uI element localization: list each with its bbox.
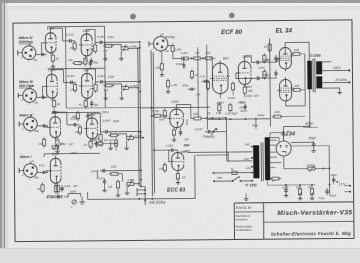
rail riser right: [103, 26, 106, 107]
grid resistor 1M (ch II): [75, 125, 82, 135]
svg-text:400: 400: [248, 89, 253, 93]
grid resistor 1M (ch IV): [70, 41, 77, 51]
svg-text:1M: 1M: [38, 142, 43, 146]
triode VIVb: [79, 31, 93, 58]
svg-text:0,5M: 0,5M: [258, 66, 265, 70]
svg-text:mit Echo: mit Echo: [149, 200, 166, 205]
resistor 1K (ecf cath): [190, 69, 198, 80]
wire splitter-caps: [236, 56, 254, 79]
label 150V: [51, 110, 59, 114]
svg-text:1M: 1M: [159, 167, 164, 171]
svg-text:A1: A1: [78, 102, 83, 106]
resistor 47K (mixer): [159, 108, 167, 121]
wire splitter join: [220, 92, 245, 98]
svg-text:7,5Ω: 7,5Ω: [318, 196, 324, 200]
resistor 1M (ch I grid): [38, 137, 46, 148]
wire pot-bus (ch II): [110, 131, 144, 139]
wire conn-grid (ch III): [43, 86, 48, 97]
svg-text:3,3K: 3,3K: [225, 112, 231, 116]
bus join: [66, 107, 209, 109]
capacitor 0,1 upper: [254, 58, 270, 64]
resistor 50 bias: [308, 185, 314, 196]
ground (pot2 II): [124, 146, 128, 150]
svg-text:ECC 83: ECC 83: [167, 188, 185, 194]
decoupling II: [71, 110, 94, 121]
punch hole left: [130, 13, 136, 19]
title note Nachdruck: [235, 214, 250, 222]
svg-text:200 Ohm: 200 Ohm: [18, 84, 35, 88]
capacitor input (ch II): [40, 124, 48, 127]
resistor 500 bias: [296, 185, 302, 196]
svg-text:00V: 00V: [254, 94, 259, 98]
connector Mikro I: [19, 159, 41, 180]
svg-text:0,5M: 0,5M: [127, 178, 134, 182]
svg-text:400V: 400V: [305, 122, 314, 126]
vertical feed x198: [197, 47, 200, 118]
trimmer 2K (bottom): [71, 200, 77, 209]
ground (pot III): [103, 96, 107, 100]
label 155V (ch II): [101, 110, 109, 114]
svg-text:22M: 22M: [107, 75, 114, 79]
secondary tap 100V: [322, 66, 350, 72]
label 7,5ohm: [318, 196, 324, 200]
label U1808: [310, 54, 321, 58]
capacitor 50u (el34): [262, 70, 277, 77]
mixing bus B: [151, 50, 152, 196]
label Mikro IV: [18, 36, 34, 44]
triode VIIb: [84, 115, 98, 141]
svg-text:22M: 22M: [112, 119, 119, 123]
book edge gray strip: [2, 3, 5, 263]
decoupling resistor 1M rail: [68, 58, 88, 64]
svg-text:10μ: 10μ: [34, 129, 39, 133]
svg-text:Ü-1808: Ü-1808: [310, 54, 321, 58]
mains line L: [212, 172, 252, 174]
volume pot 0,5M (ch II): [127, 134, 143, 141]
capacitor 0,022 (mixer2): [166, 143, 190, 152]
capacitor 0,047 praesenz: [195, 127, 213, 133]
resistor 2K (ch II cathode): [56, 138, 65, 149]
label Netz: [217, 175, 223, 179]
title note Aenderungen: [234, 224, 252, 232]
page left shading: [5, 3, 9, 263]
wire mixer grid: [163, 115, 167, 117]
triode VIIIb: [79, 71, 93, 101]
svg-text:Misch-Verstärker-V35: Misch-Verstärker-V35: [277, 209, 352, 217]
pentode EL34 lower: [277, 77, 294, 103]
svg-text:Si: Si: [231, 167, 234, 171]
volume pot 0,5M (ch III): [122, 84, 138, 91]
svg-text:30μ: 30μ: [93, 60, 98, 64]
ground (pot IV): [103, 56, 107, 60]
wire conn-grid (ch I): [46, 171, 48, 173]
resistor 3,3K (splitter): [225, 103, 238, 116]
wire conn-grid (ch IV): [41, 43, 46, 55]
ch I coupling resistor 22M: [109, 165, 120, 176]
cathode resistor (ch III b): [78, 99, 88, 109]
mains line N: [213, 180, 252, 182]
svg-text:10μF: 10μF: [330, 193, 337, 197]
page top shading: [0, 6, 360, 11]
svg-text:1M: 1M: [104, 138, 109, 142]
resistor 0,2M (hochg): [171, 43, 182, 53]
connector Hochpegel: [149, 32, 176, 54]
capacitor input (ch I): [40, 171, 48, 174]
ch I label 2,2n: [97, 176, 106, 185]
wire el34 anode lower: [286, 103, 306, 106]
svg-text:50μF: 50μF: [231, 112, 238, 116]
supply vertical x270: [269, 38, 272, 126]
trimmer 100R: [306, 163, 330, 172]
svg-text:5M: 5M: [185, 138, 190, 142]
label 400V: [303, 122, 318, 128]
svg-text:B.M.63. Bl: B.M.63. Bl: [236, 206, 252, 210]
ground (ch II cathode): [55, 149, 59, 153]
svg-text:0,047: 0,047: [102, 119, 110, 123]
svg-text:1M: 1M: [104, 88, 109, 92]
svg-text:10μ: 10μ: [34, 176, 39, 180]
capacitor 50uF reservoir: [291, 136, 317, 152]
labels echo section: [183, 138, 191, 153]
wire anode2 (ch II): [92, 113, 103, 131]
svg-text:120V: 120V: [171, 100, 179, 104]
svg-text:10K: 10K: [155, 66, 160, 70]
label 75V: [83, 68, 90, 72]
bus stubs mixer: [139, 107, 168, 199]
scanner background left dark strip: [0, 0, 2, 263]
rail row I: [44, 153, 100, 157]
svg-text:100V: 100V: [333, 66, 342, 70]
wire psu horizontals: [270, 131, 284, 142]
wire bus to PSU: [187, 151, 252, 154]
capacitor 10uF right mid: [330, 173, 338, 183]
svg-text:240: 240: [244, 143, 250, 147]
wire praesenz lower: [196, 152, 228, 162]
label 80V: [223, 57, 230, 61]
svg-text:1M: 1M: [108, 185, 113, 189]
svg-text:155V: 155V: [101, 110, 109, 114]
screen resistor 100 lower: [291, 84, 302, 92]
wire el34 grids: [262, 58, 280, 78]
svg-text:10μF: 10μF: [282, 185, 289, 189]
ch I output coupling: [91, 169, 142, 174]
connector Mikro IV: [18, 41, 40, 62]
svg-text:1,2M: 1,2M: [171, 83, 178, 87]
triode splitter: [236, 59, 251, 87]
label ECC83 (ch I): [47, 194, 64, 199]
svg-text:25,0μ: 25,0μ: [261, 58, 269, 62]
scanner background bottom band: [0, 249, 360, 263]
svg-text:0,022: 0,022: [176, 62, 184, 66]
capacitor input (ch III): [39, 96, 47, 99]
page bottom edge: [0, 248, 360, 249]
svg-text:300p: 300p: [182, 83, 189, 87]
resistor 2K (ch I cathode): [56, 183, 65, 194]
ch I resistor 1M: [108, 179, 120, 190]
grid resistor 1M (ch III): [70, 82, 77, 92]
bypass capacitor (ch III b): [90, 100, 99, 107]
ch I pot 0,5M: [127, 178, 140, 187]
svg-text:Mikro II: Mikro II: [19, 113, 33, 117]
svg-text:Hochg.: Hochg.: [165, 35, 175, 39]
ground (bottom left): [79, 196, 84, 204]
heater wires psu: [270, 137, 306, 169]
capacitor 300p: [182, 83, 196, 90]
coupling capacitor 0,022 (ch III): [67, 74, 76, 84]
wire conn-grid (ch II): [46, 126, 48, 128]
svg-text:160V: 160V: [70, 151, 78, 155]
resistor 1M (mixer2 grid): [159, 162, 167, 172]
bypass capacitor (ch II b): [95, 141, 104, 148]
label Praesenz: [203, 134, 215, 138]
svg-text:50μF: 50μF: [309, 136, 318, 140]
coupling capacitor 0,047 (ch III): [97, 74, 114, 83]
label ECF80: [221, 29, 243, 36]
title Misch-Verstaerker: [277, 209, 352, 217]
svg-text:100V: 100V: [246, 94, 253, 98]
svg-text:22M: 22M: [107, 35, 114, 39]
grid resistors 0,5M: [258, 53, 266, 79]
pot 2K (above ch I): [52, 142, 73, 150]
svg-text:Schaller-Electronic Feucht b.: Schaller-Electronic Feucht b. Nbg: [271, 231, 351, 237]
svg-text:30μ: 30μ: [94, 103, 99, 107]
label 150V: [88, 113, 96, 117]
wire right psu: [227, 146, 330, 161]
ground (ch III cathode): [52, 109, 56, 113]
resistor row 1M: [192, 51, 203, 60]
resistor 0,5M (mixer in): [152, 109, 163, 117]
svg-text:1M: 1M: [92, 138, 97, 142]
svg-text:1M: 1M: [68, 58, 73, 62]
decoupling cap rail: [89, 60, 92, 69]
svg-text:0,1: 0,1: [90, 112, 94, 116]
svg-text:200Ohm: 200Ohm: [18, 40, 34, 44]
label 3x0,1: [240, 109, 258, 128]
svg-text:1M: 1M: [196, 92, 201, 96]
pentode ECF80: [210, 61, 230, 96]
label 160V (above ch I): [70, 151, 78, 155]
primary tap bottom: [251, 172, 253, 182]
label 120V: [171, 100, 179, 104]
svg-text:50μF: 50μF: [262, 73, 269, 77]
label 150V: [48, 68, 56, 72]
resistor 2K (mixer2 cath): [176, 171, 187, 184]
wire gnd join (ch II): [111, 141, 127, 146]
svg-text:100: 100: [294, 84, 299, 88]
resistor 1,2M (hochg): [166, 78, 178, 93]
svg-text:1M: 1M: [37, 187, 42, 191]
cathode resistor (ch II b): [83, 139, 93, 149]
primary tap 220: [243, 157, 253, 161]
B+ line: [283, 125, 310, 127]
svg-text:16: 16: [207, 111, 211, 115]
rail riser left: [64, 27, 67, 108]
svg-text:15 Ohm: 15 Ohm: [335, 78, 347, 82]
page top bright edge: [0, 3, 360, 7]
svg-text:340V: 340V: [257, 113, 265, 117]
svg-text:0,047: 0,047: [97, 35, 105, 39]
wire gz34 plates: [270, 145, 276, 152]
svg-text:2,2n: 2,2n: [97, 176, 104, 180]
mixer cathode network: [172, 128, 183, 142]
label EL34: [276, 27, 293, 34]
resistor 1M load (ch IV): [103, 44, 114, 52]
svg-text:22M: 22M: [110, 165, 117, 169]
bracket wire (bottom): [68, 193, 81, 197]
svg-text:0,022: 0,022: [228, 96, 235, 100]
rectifier GZ34: [276, 141, 291, 156]
capacitor 150p: [239, 103, 247, 110]
resistor 10K (mixer anode): [192, 112, 203, 120]
book edge dark line: [4, 3, 5, 263]
svg-text:0,5M: 0,5M: [152, 109, 159, 113]
wire anode-cap (ch IV): [51, 28, 67, 41]
label Ausg: [185, 118, 189, 126]
splitter cathode resistor: [228, 81, 236, 100]
coupling capacitor 0,047 (ch IV): [97, 35, 114, 44]
capacitor 10uF bias: [282, 185, 289, 194]
svg-text:Präsenz: Präsenz: [203, 134, 215, 138]
label Mikro III: [18, 80, 35, 88]
secondary gnd tap: [322, 88, 342, 94]
svg-text:0,02: 0,02: [65, 184, 71, 188]
svg-text:Mikro I: Mikro I: [20, 155, 33, 159]
primary centre tap feed: [309, 89, 311, 126]
label mit Echo: [144, 199, 166, 205]
output transformer secondary lower: [316, 76, 322, 88]
cathode resistor 1K (EL34): [264, 42, 272, 53]
svg-text:160V: 160V: [70, 190, 78, 194]
svg-text:Bias: Bias: [252, 123, 258, 127]
svg-text:1M: 1M: [69, 142, 74, 146]
svg-text:50μ: 50μ: [64, 195, 69, 199]
punch hole right: [229, 12, 235, 18]
label ECC83 (mixer): [167, 188, 185, 194]
wire anode-cap (ch II): [55, 112, 71, 125]
ground marks above title: [244, 193, 248, 200]
wire anode2 (ch III): [87, 69, 98, 82]
transformer core: [313, 59, 315, 93]
capacitor 25u: [261, 55, 277, 62]
bias wire: [284, 184, 316, 186]
label Mikro II: [19, 113, 33, 117]
primary tap 110: [246, 166, 254, 170]
resistor 2K (ch IV cathode): [51, 53, 60, 64]
connector Mikro II: [19, 113, 41, 134]
rail row II: [52, 111, 100, 113]
resistor 27K (ch IV): [88, 43, 97, 54]
capacitor 0,01 (ch I): [39, 163, 45, 167]
svg-text:0,047: 0,047: [195, 127, 203, 131]
resistor 27K (ch II): [93, 132, 102, 143]
resistor 10M (ecf grid): [196, 80, 210, 96]
coupling capacitor 0,047 (ch II): [102, 119, 119, 134]
mains switch: [231, 176, 241, 182]
power transformer secondary: [265, 137, 271, 180]
capacitor 10uF bottom right: [325, 188, 336, 197]
output transformer primary: [307, 61, 312, 90]
bias feed vertical: [255, 119, 257, 129]
svg-text:1M: 1M: [109, 138, 114, 142]
svg-text:vorbehalten: vorbehalten: [235, 228, 251, 232]
svg-text:1M: 1M: [70, 46, 75, 50]
label 300V: [245, 85, 253, 89]
label 150V: [83, 29, 91, 33]
scanner background top band: [0, 0, 360, 3]
ch I wires: [97, 171, 129, 197]
labels ch I right: [65, 184, 78, 194]
label 160V (mixer2): [180, 150, 188, 154]
secondary tap 15 Ohm: [322, 78, 350, 84]
triode VIIa: [47, 114, 60, 140]
power transformer core: [261, 142, 263, 181]
capacitor 0,1 lower: [254, 74, 270, 80]
svg-text:Netz: Netz: [217, 175, 223, 179]
echo jack: [137, 188, 146, 196]
schematic border frame: [13, 20, 354, 242]
wire mixer anode: [176, 104, 191, 118]
svg-text:1M: 1M: [70, 88, 75, 92]
rail row III: [47, 67, 104, 70]
label 250V: [237, 100, 246, 104]
mixer input resistors: [92, 138, 118, 151]
svg-text:0,047: 0,047: [97, 74, 105, 78]
svg-text:0,022: 0,022: [66, 33, 74, 37]
label 110V: [52, 152, 60, 156]
resistor 1M load (ch II): [108, 134, 119, 142]
wire mixer2 grid: [168, 150, 178, 162]
svg-text:250V: 250V: [237, 100, 246, 104]
capacitor 2,2n: [198, 74, 209, 83]
label 100V: [47, 27, 55, 31]
svg-text:300V: 300V: [245, 85, 253, 89]
wire heater bottom: [267, 181, 283, 186]
svg-text:1M: 1M: [73, 184, 78, 188]
wire screen joins: [291, 54, 305, 106]
svg-text:110: 110: [246, 166, 251, 170]
ground (pot II): [108, 146, 112, 150]
resistor row 0,2M: [180, 51, 191, 60]
svg-text:0,022: 0,022: [67, 74, 75, 78]
wire praesenz: [213, 118, 226, 161]
supply rail 340V: [208, 113, 271, 120]
triode VIVa: [43, 30, 56, 55]
svg-text:ECC 83: ECC 83: [47, 194, 64, 199]
wire el34 anode upper: [285, 42, 309, 61]
NFB resistor 10K: [272, 110, 306, 118]
bottom ground bus: [87, 155, 195, 200]
svg-text:A1: A1: [83, 143, 88, 147]
junction dots mixer: [203, 117, 227, 119]
svg-text:10μ: 10μ: [33, 58, 38, 62]
svg-text:1M: 1M: [103, 49, 108, 53]
svg-text:EL 34: EL 34: [276, 27, 293, 34]
title block ref number: [236, 206, 252, 210]
svg-text:3x0,1: 3x0,1: [240, 109, 248, 113]
svg-text:0,02: 0,02: [60, 142, 66, 146]
resistor 500 (splitter): [216, 101, 221, 113]
label 260V: [242, 55, 251, 59]
svg-text:80V: 80V: [223, 57, 230, 61]
svg-text:0,5M: 0,5M: [130, 84, 137, 88]
svg-text:2,2μ: 2,2μ: [198, 74, 205, 78]
ground (pot2 III): [119, 96, 123, 100]
wire ecf in: [209, 57, 212, 79]
connector Mikro III: [18, 84, 40, 105]
capacitor 0,022 (hochg): [176, 58, 186, 70]
volume pot 0,5M (ch IV): [121, 44, 137, 51]
mixing bus A: [138, 43, 142, 186]
